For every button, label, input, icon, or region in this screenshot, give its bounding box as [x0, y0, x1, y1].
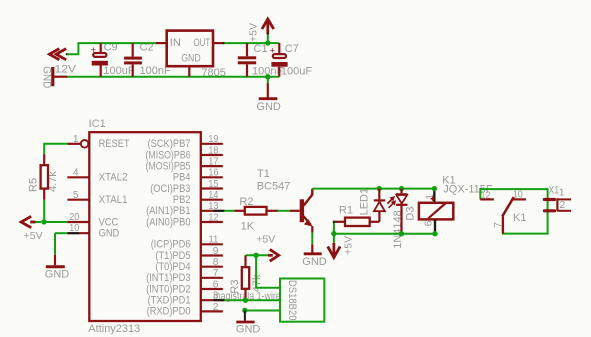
svg-text:(T1)PD5: (T1)PD5	[155, 250, 190, 262]
svg-text:D3: D3	[405, 207, 417, 221]
svg-text:12V: 12V	[55, 64, 77, 76]
svg-text:1K: 1K	[241, 221, 255, 233]
svg-text:R5: R5	[28, 178, 40, 192]
svg-text:GND: GND	[181, 52, 201, 64]
svg-text:(OCI)PB3: (OCI)PB3	[150, 183, 190, 195]
svg-text:GND: GND	[256, 101, 281, 113]
svg-text:+5V: +5V	[256, 233, 275, 245]
svg-text:(AIN0)PB0: (AIN0)PB0	[146, 216, 190, 228]
svg-text:BC547: BC547	[257, 181, 291, 193]
svg-text:(TXD)PD1: (TXD)PD1	[148, 295, 191, 307]
svg-text:1: 1	[559, 187, 565, 199]
svg-text:RESET: RESET	[99, 138, 130, 150]
svg-text:GND: GND	[40, 66, 52, 88]
svg-text:DS18B20: DS18B20	[286, 280, 298, 321]
svg-text:R1: R1	[339, 205, 353, 217]
svg-text:+5V: +5V	[247, 23, 259, 42]
svg-text:IN: IN	[170, 37, 181, 49]
svg-text:+5V: +5V	[24, 230, 43, 242]
svg-text:C1: C1	[254, 43, 268, 55]
svg-text:(ICP)PD6: (ICP)PD6	[151, 239, 191, 251]
svg-text:+5V: +5V	[343, 236, 355, 255]
svg-text:100uF: 100uF	[103, 65, 134, 77]
svg-text:K1: K1	[513, 212, 526, 224]
svg-text:PB4: PB4	[173, 172, 191, 184]
svg-text:(INT1)PD3: (INT1)PD3	[146, 272, 190, 284]
svg-text:GND: GND	[302, 256, 327, 268]
svg-text:XTAL1: XTAL1	[99, 194, 128, 206]
svg-text:(INT0)PD2: (INT0)PD2	[146, 283, 190, 295]
svg-text:X1: X1	[549, 185, 560, 197]
svg-text:C7: C7	[285, 43, 299, 55]
svg-text:100uF: 100uF	[281, 66, 312, 78]
svg-text:T1: T1	[257, 168, 270, 180]
svg-text:GND: GND	[99, 228, 120, 240]
svg-text:6: 6	[422, 220, 434, 226]
svg-text:(MOSI)PB5: (MOSI)PB5	[146, 160, 191, 172]
svg-text:GND: GND	[236, 323, 261, 335]
svg-text:GND: GND	[45, 269, 70, 281]
svg-text:Attiny2313: Attiny2313	[88, 323, 140, 335]
svg-text:(AIN1)PB1: (AIN1)PB1	[146, 205, 190, 217]
svg-text:(RXD)PD0: (RXD)PD0	[147, 306, 191, 318]
svg-text:IC1: IC1	[89, 118, 106, 130]
svg-text:XTAL2: XTAL2	[99, 172, 128, 184]
svg-text:LED1: LED1	[359, 188, 371, 216]
svg-text:OUT: OUT	[194, 37, 211, 49]
svg-text:2: 2	[559, 199, 565, 211]
svg-text:(SCK)PB7: (SCK)PB7	[148, 138, 191, 150]
svg-text:47k: 47k	[251, 274, 263, 292]
svg-text:VCC: VCC	[99, 216, 119, 228]
